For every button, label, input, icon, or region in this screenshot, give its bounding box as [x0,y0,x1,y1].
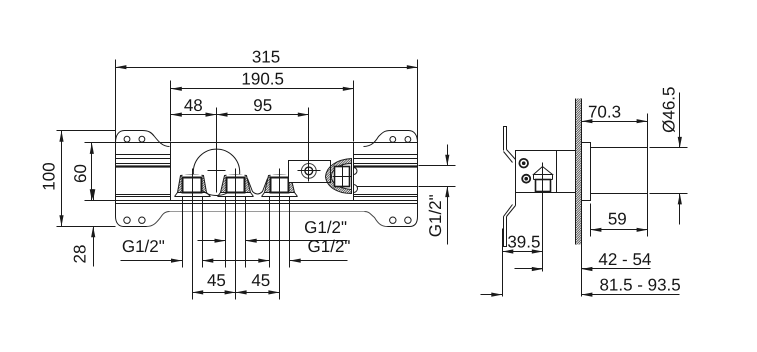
dim 39.5 ext line [502,229,504,297]
body sleeve divider [556,151,558,193]
plate top edge left segment [116,142,171,144]
dim 60 top ext [85,142,117,144]
svg-text:95: 95 [253,96,272,115]
tab hole [390,137,396,143]
G1/2 vertical dim line [447,145,449,245]
port1 seat [175,193,211,197]
port2 thread line left [225,197,227,268]
dim 42-54 arrows [532,267,543,271]
cartridge dome [193,149,239,195]
dim dia46.5 ext lines [650,148,688,194]
dim 190.5 arrows [171,87,182,91]
side port nut step line [534,179,553,181]
dim 59 line [591,229,648,231]
svg-text:60: 60 [71,164,90,183]
escutcheon flange [582,143,591,201]
plate top edge right segment [354,142,418,144]
bracket lower fold inner [504,205,513,217]
screw centerline ext [308,108,310,182]
DIMENSIONS [59,65,682,297]
dim 315 line [116,67,418,69]
screw2 dot [524,177,528,181]
valve body side [516,151,576,193]
side port nut shoulder sides [534,175,553,180]
port1 centerline [192,169,194,300]
outlet clip bottom [354,185,358,193]
mounting plate top-left tab [116,131,170,147]
svg-text:G1/2": G1/2" [122,237,165,256]
plate bottom hole [139,217,145,223]
rail line right [354,158,418,160]
G1/2 mid leader [198,240,348,242]
screw crosshair [298,170,321,172]
tab hole [405,137,411,143]
svg-text:42 - 54: 42 - 54 [598,250,651,269]
screw block [289,161,331,183]
rail line left [116,158,171,160]
plate bottom hole [124,217,130,223]
dim 59 arrows [590,228,601,232]
plate bottom hole [390,217,396,223]
tab hole [124,136,130,142]
rail line left lower [116,196,171,198]
bracket top strip [504,127,507,151]
port2 seat [218,193,254,197]
port3 centerline [279,169,281,300]
dim 45 line [193,292,280,294]
dim 39.5 line [503,251,543,253]
port2 centerline [235,169,237,300]
dim 100 line [61,131,63,227]
outlet crosshair horizontal [333,176,352,178]
dim 315 ext lines [116,60,418,143]
dim 42-54 line [515,268,651,270]
outlet pipe top thick line [354,165,418,167]
bracket lower fold outer [507,206,516,217]
side port nut body [536,180,551,192]
dim 70.3 line [582,121,648,123]
rail line right lower [354,196,418,198]
outlet cap hatched dome [326,159,352,194]
port1 thread line right [202,197,204,268]
G1/2 left leader [121,260,183,262]
screw2 ring [522,175,530,183]
svg-text:315: 315 [252,48,280,67]
tab hole [139,136,145,142]
outlet nut square [335,167,350,187]
rail line right lower [354,194,418,196]
svg-text:59: 59 [608,210,627,229]
valve body rectangle [171,143,354,201]
wall left face [575,99,577,245]
dim 190.5 line [171,88,354,90]
rail thick line left [116,165,171,167]
port3 thread line right [289,197,291,268]
port3 thread line left [269,197,271,268]
rail bottom line full [85,200,418,202]
wall right face [581,99,583,297]
plate left edge [116,143,147,227]
rail line left lower [116,194,171,196]
svg-text:G1/2": G1/2" [426,194,445,237]
dim 39.5 arrows [502,249,513,253]
screw1 dot [522,161,526,165]
port3 nut [265,175,295,193]
dome horizontal centerline [208,170,226,172]
bracket upper fold inner [504,152,513,163]
plate bottom-right s-curve [365,212,388,227]
outlet pipe bottom line [354,186,418,188]
side port nut shoulder line [534,174,553,176]
cartridge centerline ext [216,108,218,193]
outlet crosshair vertical [342,165,344,189]
port2 nut [221,175,251,193]
dome right flare [240,176,246,178]
dim 28 arrows [91,189,95,200]
outlet cap right edge [351,159,353,194]
plate bottom hole [405,217,411,223]
bracket mid web [515,193,517,206]
svg-text:G1/2": G1/2" [308,237,351,256]
rail line left [116,163,171,165]
svg-text:70.3: 70.3 [588,102,621,121]
svg-text:Ø46.5: Ø46.5 [659,87,678,133]
svg-text:81.5 - 93.5: 81.5 - 93.5 [599,275,680,294]
dim 28 stems [93,190,95,267]
plate bottom middle edge [170,211,365,213]
dim 81.5-93.5 arrows [491,293,502,297]
svg-text:39.5: 39.5 [507,232,540,251]
G1/2 right arrows [202,259,213,263]
dim 81.5-93.5 line [481,294,680,296]
screw outer circle [301,164,316,179]
screw inner circle [305,167,313,175]
port1 nut face [183,175,202,193]
svg-text:G1/2": G1/2" [304,218,347,237]
mounting plate top-right tab [364,131,418,147]
rail line right [354,163,418,165]
wall hatched section [576,99,582,245]
port2 thread line right [245,197,247,268]
dome left flare [188,176,194,178]
outlet clip top [354,168,358,175]
rail lower line full [116,203,418,205]
plate bottom-left s-curve [147,212,170,227]
dim 60 arrows [90,143,94,154]
side port centerline [542,163,544,272]
rail line right [354,154,418,156]
plate right edge [388,143,418,227]
dim dia46.5 line [679,93,681,225]
dim 45 arrows [192,290,203,294]
dim 190.5 ext lines [171,81,354,142]
bracket bottom strip [504,217,507,247]
svg-text:100: 100 [40,162,59,190]
spigot end extension line [647,114,649,237]
svg-text:45: 45 [207,271,226,290]
spigot cylinder [591,148,648,194]
G1/2 left arrow [171,259,182,263]
bracket upper fold outer [507,150,516,160]
port2 nut face [227,175,245,193]
G1/2 right leader [203,260,348,262]
port1 thread line left [182,197,184,268]
svg-text:45: 45 [251,271,270,290]
dim 70.3 arrows [581,119,592,123]
port1 nut [178,175,207,193]
svg-text:28: 28 [70,245,89,264]
dim dia46.5 arrows [678,137,682,148]
G1/2 mid arrows [215,239,226,243]
valley between port2 and port3 [248,179,268,195]
screw1 ring [519,159,528,168]
dim 48-95 line [171,114,309,116]
svg-text:48: 48 [184,96,203,115]
port3 seat [262,193,298,197]
dim 60 line [91,143,93,201]
dim 100 arrows [59,131,63,142]
side port cap nut roof [534,167,553,175]
svg-text:190.5: 190.5 [241,70,284,89]
dim 100 ext lines [57,131,116,227]
G1/2 vertical ext lines [419,166,456,187]
dim 48 and 95 arrows [171,113,182,117]
rail line left [116,154,171,156]
port3 nut face [271,175,289,193]
dim 315 arrows [115,65,126,69]
G1/2 vertical arrows [445,155,449,166]
dim 59 ext line [590,204,592,237]
dimension texts [40,48,681,295]
